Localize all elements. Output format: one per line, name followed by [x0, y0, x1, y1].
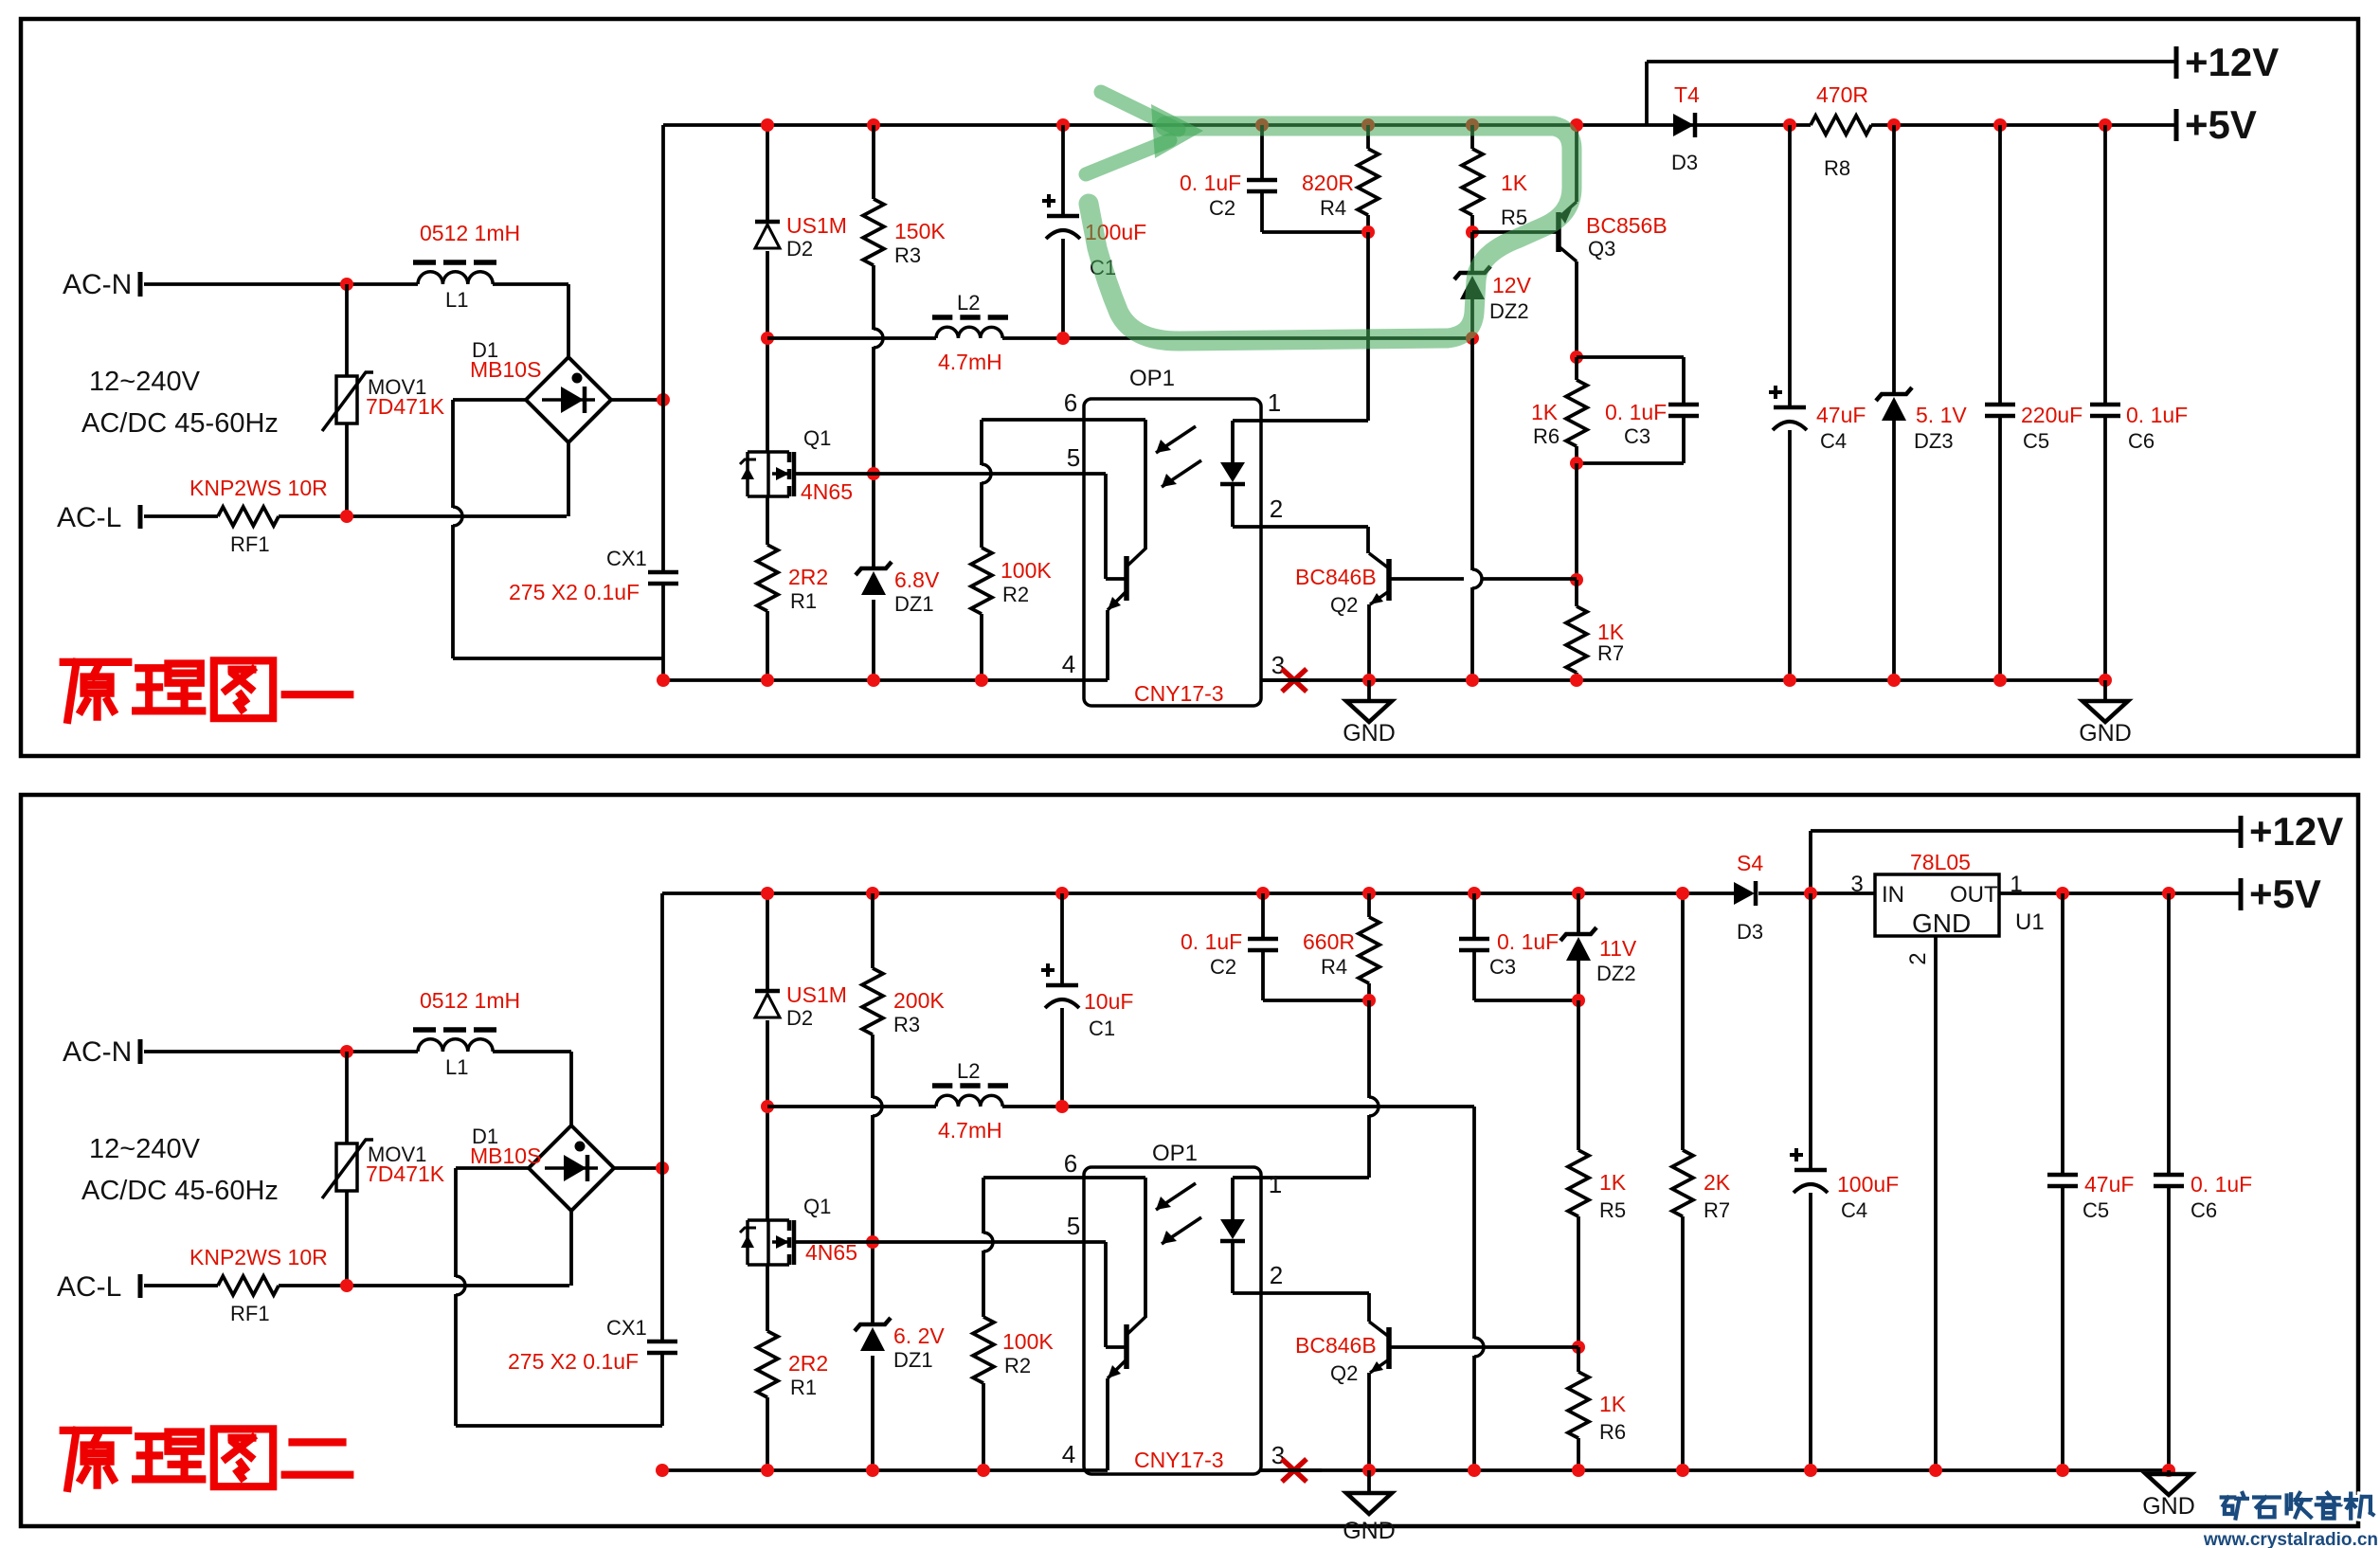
svg-text:10uF: 10uF	[1084, 989, 1133, 1014]
node C4 ground 2	[1804, 1464, 1817, 1477]
svg-text:BC846B: BC846B	[1295, 1333, 1377, 1358]
node DZ1 ground	[867, 674, 880, 687]
svg-text:R4: R4	[1321, 955, 1347, 979]
svg-text:4: 4	[1062, 650, 1075, 678]
svg-text:R5: R5	[1599, 1198, 1626, 1222]
svg-text:100K: 100K	[1001, 558, 1052, 583]
svg-text:GND: GND	[1912, 909, 1971, 938]
node CX1 ground	[657, 674, 670, 687]
svg-text:R7: R7	[1704, 1198, 1730, 1222]
svg-text:GND: GND	[1343, 1518, 1396, 1544]
resistor R1 2R2	[757, 545, 778, 611]
svg-text:Q1: Q1	[803, 426, 831, 450]
svg-text:+12V: +12V	[2185, 40, 2279, 84]
svg-text:MB10S: MB10S	[470, 1143, 541, 1168]
svg-text:820R: 820R	[1302, 171, 1354, 195]
svg-text:0. 1uF: 0. 1uF	[1181, 929, 1242, 954]
wire D2/Q1/R1 vertical x=810	[766, 125, 769, 222]
bridge rectifier D1 MB10S schematic2	[529, 1125, 614, 1211]
wire L1 to bridge 2	[493, 1050, 571, 1053]
svg-text:Q3: Q3	[1588, 237, 1615, 261]
svg-text:C6: C6	[2128, 429, 2155, 453]
svg-text:D2: D2	[786, 1006, 813, 1030]
capacitor C2 0.1uF schematic2	[1261, 893, 1265, 939]
node R1 ground	[761, 674, 774, 687]
node DZ2 bottom 2	[1572, 994, 1585, 1007]
wire 78L05 OUT to +5V	[1999, 891, 2240, 895]
svg-text:1: 1	[1268, 388, 1281, 417]
svg-text:DZ1: DZ1	[893, 1348, 933, 1372]
zener DZ1 6.8V	[856, 562, 892, 575]
svg-text:DZ2: DZ2	[1489, 299, 1529, 323]
node C6 top	[2099, 118, 2112, 132]
svg-text:S4: S4	[1737, 851, 1763, 875]
node R5 bottom	[1466, 225, 1479, 239]
node R5 top	[1466, 118, 1479, 132]
transistor Q2 BC846B NPN	[1386, 559, 1392, 601]
resistor RF1 KNP2WS 10R schematic2	[218, 1276, 279, 1295]
svg-text:11V: 11V	[1599, 936, 1637, 961]
wire hop R3 over lower bus	[874, 329, 883, 348]
wire R3/DZ1 vertical schematic2	[871, 893, 874, 968]
transistor Q3 BC856B PNP	[1556, 212, 1561, 252]
node R7 ground	[1570, 674, 1583, 687]
zener DZ1 6.2V schematic2	[855, 1318, 891, 1331]
resistor R7 2K schematic2	[1681, 893, 1685, 1150]
svg-text:4: 4	[1062, 1440, 1075, 1468]
wire R2 vertical schematic2	[982, 1178, 985, 1233]
svg-text:DZ1: DZ1	[894, 592, 934, 616]
wire MOV1 vertical 2	[345, 1052, 349, 1143]
svg-text:RF1: RF1	[230, 1302, 270, 1325]
svg-text:5: 5	[1067, 443, 1080, 472]
node Q2 base junction	[1570, 573, 1583, 586]
svg-text:47uF: 47uF	[1816, 403, 1866, 427]
node DZ1 ground 2	[866, 1464, 879, 1477]
wire Q2 emitter down 2	[1367, 1373, 1371, 1470]
svg-text:+5V: +5V	[2185, 102, 2257, 147]
svg-text:1K: 1K	[1599, 1392, 1627, 1416]
capacitor CX1 schematic2	[647, 1340, 677, 1344]
node lower-bus ground	[1466, 674, 1479, 687]
svg-text:+12V: +12V	[2249, 809, 2343, 854]
resistor R3 150K	[863, 199, 884, 265]
svg-text:AC/DC 45-60Hz: AC/DC 45-60Hz	[81, 1176, 279, 1206]
svg-text:OP1: OP1	[1152, 1141, 1198, 1166]
svg-text:4N65: 4N65	[801, 479, 853, 504]
svg-text:AC/DC 45-60Hz: AC/DC 45-60Hz	[81, 408, 279, 439]
svg-text:BC846B: BC846B	[1295, 565, 1377, 589]
svg-text:R1: R1	[790, 1376, 817, 1399]
node C2 top 2	[1256, 887, 1270, 900]
svg-text:AC-N: AC-N	[63, 269, 132, 300]
transistor Q1 4N65 MOSFET	[748, 450, 768, 454]
pin 1 wire 2	[1233, 1176, 1369, 1179]
svg-text:US1M: US1M	[786, 982, 847, 1007]
diode D3 T4	[1673, 114, 1694, 136]
green highlighter arrow head	[1151, 104, 1203, 158]
svg-text:C5: C5	[2023, 429, 2049, 453]
svg-text:AC-N: AC-N	[63, 1036, 132, 1068]
node bridge output 2	[656, 1161, 669, 1175]
svg-text:C5: C5	[2082, 1198, 2109, 1222]
wire lower bus corner down x=1556	[1472, 1107, 1476, 1339]
capacitor C6 0.1uF	[2103, 125, 2107, 405]
pin 2 wire	[1233, 525, 1368, 529]
node R6/C3 top	[1570, 351, 1583, 364]
bridge rectifier D1 MB10S	[526, 357, 611, 442]
wire Q1 gate line 2	[794, 1240, 873, 1244]
resistor RF1 KNP2WS 10R	[218, 507, 279, 526]
svg-text:U1: U1	[2015, 909, 2045, 935]
svg-text:5. 1V: 5. 1V	[1916, 403, 1967, 427]
node C6 top 2	[2162, 887, 2175, 900]
wire hop over AC-L 2	[456, 1276, 465, 1295]
svg-text:CNY17-3: CNY17-3	[1134, 681, 1224, 706]
wire hop R3 over lower bus 2	[873, 1097, 882, 1116]
wire MOV1 vertical	[345, 284, 349, 376]
wire bridge output to CX1 line	[611, 398, 663, 402]
capacitor CX1 275 X2 0.1uF	[648, 570, 678, 575]
pin 3 stub with no-connect 2	[1261, 1468, 1322, 1472]
svg-text:AC-L: AC-L	[57, 502, 121, 533]
svg-text:0. 1uF: 0. 1uF	[1497, 929, 1559, 954]
svg-text:C2: C2	[1209, 196, 1235, 220]
svg-text:C2: C2	[1210, 955, 1236, 979]
svg-text:L1: L1	[445, 1055, 468, 1079]
wire R3/DZ1 vertical x=922	[872, 125, 875, 199]
svg-text:R2: R2	[1004, 1354, 1031, 1377]
wire feedback node down to R5	[1577, 1000, 1580, 1150]
svg-text:1: 1	[1269, 1170, 1282, 1198]
wire R2 vertical	[980, 420, 983, 465]
wire AC-L with fuse resistor	[144, 514, 218, 518]
node R4 top 2	[1362, 887, 1376, 900]
wire L1 to bridge top	[493, 282, 568, 286]
svg-text:100K: 100K	[1002, 1329, 1054, 1354]
wire top bus right of R8	[1871, 123, 2175, 127]
transistor Q1 4N65 MOSFET schematic2	[748, 1218, 768, 1222]
svg-text:2: 2	[1270, 495, 1283, 523]
node AC-N/MOV1 junction	[340, 278, 353, 291]
node CX1 ground 2	[656, 1464, 669, 1477]
node bridge output	[657, 393, 670, 406]
wire bridge output 2	[614, 1166, 662, 1170]
title 原理图一	[63, 662, 129, 720]
svg-text:MB10S: MB10S	[470, 357, 541, 382]
node C1 top	[1056, 118, 1070, 132]
svg-text:1K: 1K	[1531, 400, 1559, 424]
svg-text:R7: R7	[1597, 641, 1624, 665]
node Q2 emitter ground 2	[1362, 1464, 1376, 1477]
wire 78L05 GND pin down	[1934, 936, 1938, 1470]
ground symbol GND2	[2103, 680, 2107, 701]
svg-text:R4: R4	[1320, 196, 1346, 220]
wire bridge left vertex loop	[453, 398, 526, 402]
opto phototransistor schematic2	[1104, 1242, 1108, 1347]
svg-text:R6: R6	[1533, 424, 1560, 448]
wire lower bus down to ground bus	[1470, 338, 1474, 570]
svg-text:US1M: US1M	[786, 213, 847, 238]
svg-text:2: 2	[1270, 1261, 1283, 1289]
svg-text:275 X2 0.1uF: 275 X2 0.1uF	[509, 580, 640, 604]
ground symbol GND schematic2 right	[2167, 1470, 2171, 1474]
wire R6 bottom to base node	[1575, 463, 1578, 580]
node C5 ground	[1993, 674, 2007, 687]
node AC-L/MOV1 junction	[340, 510, 353, 523]
wire lower bus from L2	[767, 336, 936, 340]
svg-text:3: 3	[1271, 1441, 1285, 1469]
varistor MOV1 7D471K	[336, 376, 357, 423]
wire bridge bottom to AC-L	[567, 442, 570, 516]
optocoupler OP1 CNY17-3 body schematic2	[1084, 1167, 1261, 1474]
terminal +12V	[2174, 46, 2179, 79]
wire D2/Q1/R1 vertical schematic2	[766, 893, 769, 991]
svg-text:2R2: 2R2	[788, 1351, 828, 1376]
resistor R4 820R	[1366, 125, 1370, 149]
svg-text:R2: R2	[1002, 583, 1029, 606]
svg-text:D3: D3	[1737, 920, 1763, 944]
inductor L2 4.7mH	[936, 327, 1002, 338]
svg-text:100uF: 100uF	[1837, 1172, 1899, 1197]
svg-text:220uF: 220uF	[2021, 403, 2082, 427]
node R7 ground 2	[1676, 1464, 1689, 1477]
svg-text:6.8V: 6.8V	[894, 567, 940, 592]
svg-text:CX1: CX1	[606, 547, 647, 570]
opto LED schematic2	[1231, 1178, 1235, 1219]
title 原理图二	[63, 1431, 129, 1488]
pin 6 wire	[982, 418, 1145, 422]
wire opto emitter to pin4	[1106, 610, 1109, 680]
svg-text:KNP2WS 10R: KNP2WS 10R	[189, 1245, 328, 1269]
node AC-L/MOV1 junction 2	[340, 1279, 353, 1292]
wire hop over AC-L	[453, 507, 462, 526]
svg-text:C6: C6	[2191, 1198, 2217, 1222]
node Q1 gate junction	[867, 467, 880, 480]
wire +12V branch 2	[1809, 831, 1812, 893]
green highlighter arrow tail 2	[1086, 140, 1170, 174]
svg-text:R8: R8	[1824, 156, 1850, 180]
wire hop R2 over gate line	[982, 464, 991, 483]
svg-text:D3: D3	[1671, 151, 1698, 174]
svg-text:0. 1uF: 0. 1uF	[2191, 1172, 2252, 1197]
node R7 top 2	[1676, 887, 1689, 900]
wire R4 down to opto pin1 with hop	[1367, 1000, 1371, 1098]
svg-text:0512 1mH: 0512 1mH	[420, 221, 520, 245]
svg-text:4.7mH: 4.7mH	[938, 1118, 1002, 1143]
node C5 top 2	[2056, 887, 2069, 900]
capacitor C6 0.1uF schematic2	[2167, 893, 2171, 1175]
capacitor C4 47uF electrolytic	[1788, 125, 1792, 407]
svg-text:L2: L2	[957, 1059, 980, 1083]
node C1 bottom 2	[1055, 1100, 1069, 1113]
wire Q3 emitter to top bus	[1575, 125, 1578, 202]
wire top DC bus schematic2	[662, 891, 1734, 895]
schematic 1 border frame	[21, 19, 2358, 756]
green highlighter arrow tail 1	[1101, 92, 1179, 130]
svg-text:AC-L: AC-L	[57, 1271, 121, 1303]
svg-text:R6: R6	[1599, 1420, 1626, 1444]
capacitor C1 10uF electrolytic schematic2	[1060, 893, 1064, 985]
svg-text:GND: GND	[2142, 1493, 2195, 1520]
wire opto emitter to pin4 2	[1106, 1378, 1109, 1470]
node lower bus left end	[761, 332, 774, 345]
resistor R7 1K	[1575, 580, 1578, 606]
regulator U1 78L05	[1875, 874, 1999, 936]
node R4 bottom 2	[1362, 994, 1376, 1007]
node R3 top 2	[866, 887, 879, 900]
capacitor C1 100uF electrolytic	[1061, 125, 1065, 216]
svg-text:RF1: RF1	[230, 532, 270, 556]
svg-text:660R: 660R	[1303, 929, 1355, 954]
wire C2 bottom to R4 node 2	[1263, 999, 1369, 1002]
node Q3 emitter on bus	[1570, 118, 1583, 132]
resistor R5 1K schematic2	[1568, 1150, 1589, 1216]
wire C3 bottom to DZ2 node	[1474, 999, 1578, 1002]
svg-text:T4: T4	[1674, 82, 1700, 107]
optocoupler OP1 CNY17-3 body	[1084, 399, 1261, 706]
svg-text:4.7mH: 4.7mH	[938, 350, 1002, 374]
resistor R4 660R schematic2	[1367, 893, 1371, 917]
wire lower bus schematic2	[767, 1105, 936, 1108]
svg-text:6: 6	[1064, 1149, 1077, 1178]
svg-text:3: 3	[1850, 872, 1863, 897]
capacitor C5 220uF	[1998, 125, 2002, 405]
terminal +12V 2	[2239, 816, 2244, 848]
wire AC-L 2	[144, 1284, 218, 1287]
node C6 ground 2	[2162, 1464, 2175, 1477]
resistor R6 1K	[1575, 357, 1578, 380]
svg-text:7D471K: 7D471K	[366, 1161, 445, 1186]
inductor L1 0512 1mH	[418, 272, 493, 284]
pin 3 stub with no-connect	[1261, 678, 1307, 682]
svg-text:DZ3: DZ3	[1914, 429, 1954, 453]
svg-text:5: 5	[1067, 1212, 1080, 1240]
node R2 ground	[975, 674, 988, 687]
opto LED	[1231, 421, 1235, 462]
svg-text:2R2: 2R2	[788, 565, 828, 589]
resistor R1 2R2 schematic2	[757, 1331, 778, 1397]
svg-text:CX1: CX1	[606, 1316, 647, 1340]
zener DZ3 5.1V	[1892, 125, 1896, 394]
svg-text:R3: R3	[894, 243, 921, 267]
pin 2 wire 2	[1233, 1291, 1369, 1295]
zener DZ2 11V schematic2	[1577, 893, 1580, 934]
wire DC vertical x=699 schematic2	[660, 893, 664, 1341]
node R3 top	[867, 118, 880, 132]
wire DC rail vertical x=700	[661, 125, 665, 572]
wire hop over Q2 base line	[1472, 569, 1482, 588]
svg-text:D2: D2	[786, 237, 813, 261]
svg-text:1: 1	[2010, 872, 2022, 897]
svg-text:200K: 200K	[893, 988, 945, 1013]
svg-text:C3: C3	[1624, 424, 1650, 448]
svg-text:www.crystalradio.cn: www.crystalradio.cn	[2203, 1530, 2378, 1548]
svg-text:1K: 1K	[1599, 1170, 1627, 1195]
node R4 bottom feedback	[1361, 225, 1375, 239]
ground symbol GND1	[1367, 680, 1371, 701]
resistor R6 1K schematic2	[1577, 1347, 1580, 1372]
wire R4 bottom down to opto pin1	[1366, 232, 1370, 421]
node Q2 emitter ground	[1362, 674, 1376, 687]
svg-text:470R: 470R	[1816, 82, 1868, 107]
resistor R2 100K schematic2	[973, 1317, 994, 1383]
svg-text:78L05: 78L05	[1910, 850, 1971, 874]
svg-text:3: 3	[1271, 651, 1285, 679]
wire Q2 base line	[1389, 577, 1464, 581]
node R2 ground 2	[977, 1464, 990, 1477]
capacitor C3 0.1uF schematic2	[1472, 893, 1476, 939]
svg-text:C4: C4	[1820, 429, 1847, 453]
node 78L05 GND pin ground	[1929, 1464, 1942, 1477]
node D2 top	[761, 118, 774, 132]
opto light arrows schematic2	[1156, 1183, 1196, 1210]
node DZ2 top 2	[1572, 887, 1585, 900]
node DZ2 bottom lower bus end	[1466, 332, 1479, 345]
svg-text:12~240V: 12~240V	[89, 1134, 201, 1164]
svg-text:6. 2V: 6. 2V	[893, 1323, 945, 1348]
svg-text:KNP2WS 10R: KNP2WS 10R	[189, 476, 328, 500]
wire Q2 emitter down	[1367, 604, 1371, 680]
svg-text:CNY17-3: CNY17-3	[1134, 1448, 1224, 1472]
pin 1 wire	[1233, 419, 1368, 423]
terminal +5V 2	[2239, 878, 2244, 910]
ground bus schematic 1	[663, 678, 1084, 682]
svg-text:L2: L2	[957, 291, 980, 315]
svg-text:R3: R3	[893, 1013, 920, 1036]
svg-text:R1: R1	[790, 589, 817, 613]
opto phototransistor	[1104, 474, 1108, 579]
svg-text:12~240V: 12~240V	[89, 367, 201, 397]
svg-text:BC856B: BC856B	[1586, 213, 1668, 238]
diode D2 US1M	[755, 220, 780, 225]
svg-text:OUT: OUT	[1950, 882, 1998, 908]
node C5 ground 2	[2056, 1464, 2069, 1477]
opto light arrows	[1156, 426, 1196, 453]
capacitor C4 100uF electrolytic schematic2	[1809, 893, 1812, 1170]
svg-text:IN: IN	[1882, 882, 1904, 908]
wire Q3 collector down	[1575, 261, 1578, 357]
svg-text:7D471K: 7D471K	[366, 394, 445, 419]
transistor Q2 BC846B NPN schematic2	[1386, 1327, 1392, 1369]
node Q2 base junction 2	[1572, 1341, 1585, 1354]
node C5 top	[1993, 118, 2007, 132]
varistor MOV1 7D471K schematic2	[336, 1143, 357, 1191]
svg-text:6: 6	[1064, 388, 1077, 417]
wire hop R2 over gate line 2	[983, 1233, 993, 1251]
wire top DC bus +12V raw	[663, 123, 1811, 127]
diode D2 US1M schematic2	[755, 989, 780, 994]
svg-text:2: 2	[1905, 952, 1931, 964]
wire Q2 base line 2	[1389, 1345, 1578, 1349]
node C1 bottom on lower bus	[1056, 332, 1070, 345]
svg-text:C3: C3	[1489, 955, 1516, 979]
wire AC-N 2	[144, 1050, 418, 1053]
svg-text:Q2: Q2	[1330, 593, 1358, 617]
svg-text:275 X2 0.1uF: 275 X2 0.1uF	[508, 1349, 639, 1374]
svg-text:GND: GND	[2079, 720, 2132, 747]
svg-text:C4: C4	[1841, 1198, 1867, 1222]
svg-text:0. 1uF: 0. 1uF	[1180, 171, 1241, 195]
node C4 top	[1783, 118, 1796, 132]
node C3 top 2	[1468, 887, 1481, 900]
svg-text:DZ2: DZ2	[1596, 962, 1636, 985]
inductor L2 4.7mH schematic2	[936, 1095, 1002, 1107]
wire +12V branch	[1645, 62, 1649, 125]
capacitor C5 47uF schematic2	[2061, 893, 2064, 1175]
svg-text:Q2: Q2	[1330, 1361, 1358, 1385]
watermark 矿石收音机	[2222, 1493, 2251, 1519]
